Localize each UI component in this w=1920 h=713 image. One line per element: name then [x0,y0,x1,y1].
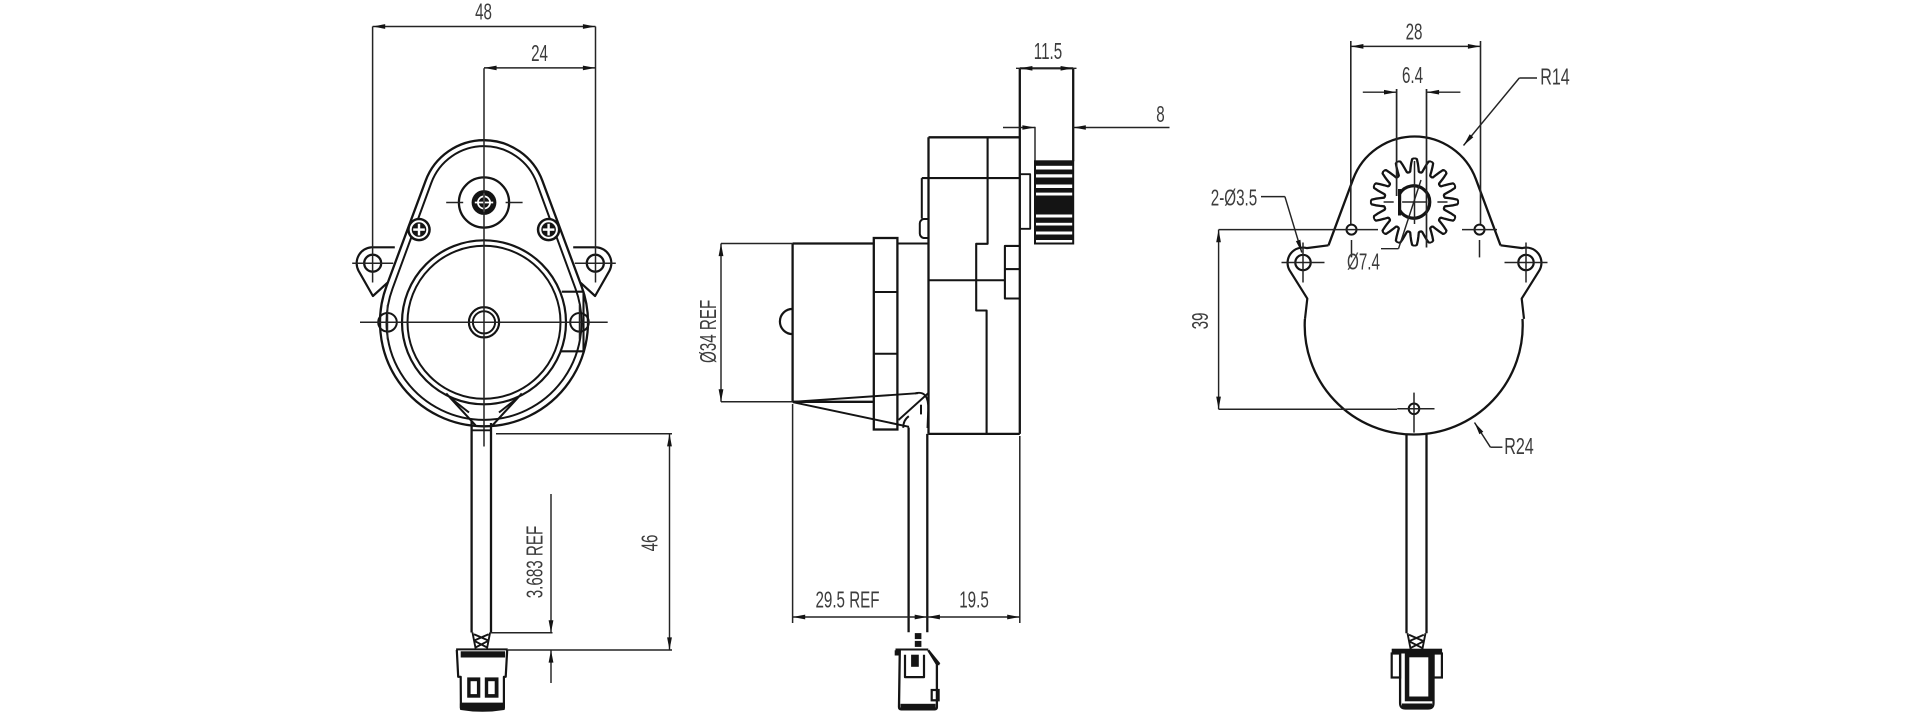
rear view: bottom screw [1409,404,1420,415]
dimension 3.683 REF line and arrows [491,632,553,634]
side view: motor cylinder [791,244,793,402]
side view: motor terminal lug [920,219,928,238]
front view: cable crimp hatch [473,633,491,649]
dimension 28 line with arrows [1351,45,1481,47]
dimension 29.5 REF line with arrows [793,616,1020,618]
side view: wire funnel lower line [793,402,909,427]
dimension 46 reference lines [496,433,672,435]
front view: left cross-head screw [407,218,431,242]
svg-text:2-Ø3.5: 2-Ø3.5 [1211,186,1257,212]
side view: connector slot [905,655,924,677]
front view: connector pin holes [467,677,480,697]
dimension diameter 34 REF line with arrows [720,244,722,402]
dimension 46 line with arrows [669,434,671,650]
side view: mounting plate edge-on [874,238,898,430]
side view: output bearing boss rectangles [1005,246,1020,299]
svg-text:8: 8 [1156,102,1164,128]
dimension 39 extension lines [1219,229,1378,231]
side view: wire fold arc [903,416,909,428]
front view: output shaft boss circle [459,177,509,227]
dimension 6.4 line with arrows [1363,91,1397,93]
dimension 48 extension lines [372,27,374,283]
svg-text:29.5 REF: 29.5 REF [815,588,879,614]
side view: cable [907,428,909,633]
front view: vertical centreline [483,68,485,446]
dimension 28 extension lines [1350,41,1352,224]
front view: motor housing outer teardrop outline [380,140,588,426]
front view: cable [470,421,472,633]
side view: gear teeth side profile [1034,127,1036,162]
side view: intermediate shaft line [929,279,1005,281]
rear view: left mounting ear with hole [1288,245,1329,319]
front view: horizontal centreline [360,321,608,323]
side view: motor end boss bump [780,309,793,334]
side view: motor terminal tab [921,178,923,218]
svg-text:R24: R24 [1504,434,1534,459]
rear view: cable crimp hatch [1408,633,1426,649]
svg-text:11.5: 11.5 [1034,39,1063,65]
svg-text:6.4: 6.4 [1402,63,1423,89]
svg-text:3.683 REF: 3.683 REF [523,526,549,599]
rear view: connector bottom band [1402,704,1432,709]
dimension 29.5 REF / 19.5 extension lines [792,404,794,623]
rear view: gear centrelines [1384,201,1394,203]
side view: gear root lines behind [1020,174,1030,229]
side view: output gear hub cylinder [1020,67,1073,69]
side view: gearbox internal step line [922,177,1020,179]
label 2-diameter 3.5 with leader [1261,196,1285,198]
svg-text:24: 24 [531,41,548,67]
svg-text:39: 39 [1188,313,1214,330]
dimension 8 arrows [1003,127,1035,129]
label R24 with leader [1475,423,1491,448]
front view: connector bottom band [461,704,504,711]
side view: cable crimp ferrule [915,633,922,639]
rear view: body top arc R14 and side slants [1329,137,1501,246]
side view: wire crossing line [899,393,930,421]
rear view: right mounting ear with hole [1501,245,1542,319]
svg-text:28: 28 [1406,19,1423,45]
svg-text:Ø34 REF: Ø34 REF [696,300,722,363]
front view: right mounting ear with hole [573,247,611,296]
side view: wire funnel upper line [793,393,918,402]
rear view: motor pinion gear teeth [1371,159,1458,246]
rear view: connector centre opening [1405,653,1433,702]
front view: motor face ring outer circle [402,240,566,404]
svg-text:48: 48 [475,0,492,25]
front view: bottom V funnel to cable [446,393,475,425]
front view: right side keying notch [560,292,583,352]
svg-text:R14: R14 [1540,65,1570,90]
side view: connector bottom band [901,704,936,710]
front view: motor face ring inner circle [408,246,561,399]
front view: output shaft (black) with white cross mark [472,190,497,215]
rear view: body big circle R24 [1305,319,1523,435]
label diameter 7.4 with leader [1381,248,1399,250]
label R14 with leader [1519,77,1537,79]
rear view: connector bottom view [1392,649,1442,654]
front view: housing inner chamfer outline [387,146,582,420]
front view: centre screw [469,307,499,337]
front view: left mounting ear with hole [357,247,395,296]
dimension 6.4 extension lines [1396,89,1398,196]
front view: left small screw on rim [378,313,397,332]
front view: shaft centreline ticks [446,202,463,204]
side view: connector latch bump [932,690,939,700]
dimension 11.5 line with arrows [1016,67,1077,69]
dimension 24 line with arrows [484,67,596,69]
side view: gap top line plate to gearbox [897,243,928,245]
side view: gearbox internal vertical with jog [976,137,987,434]
front view: right small screw on rim [570,313,589,332]
svg-text:46: 46 [638,535,664,552]
front view: connector housing [456,648,508,650]
svg-text:Ø7.4: Ø7.4 [1347,250,1380,276]
side view: connector side profile [896,649,929,651]
rear view: D-shaped shaft bore [1400,186,1430,218]
svg-text:19.5: 19.5 [959,588,989,614]
dimension 48 line with arrows [373,26,596,28]
rear view: two 3.5mm holes [1347,225,1357,235]
dimension diameter 34 REF extension lines [721,243,793,245]
front view: right cross-head screw [537,218,561,242]
dimension 39 line with arrows [1218,230,1220,410]
rear view: cable [1405,435,1407,634]
side view: gearbox housing outline [927,137,929,434]
